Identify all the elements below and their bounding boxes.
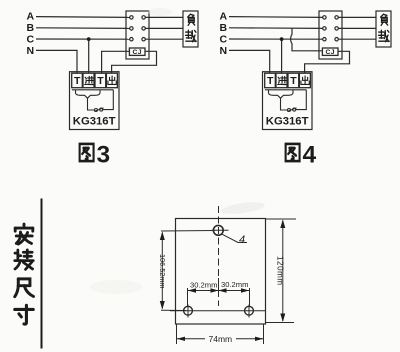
svg-text:C: C (220, 34, 228, 46)
svg-text:B: B (27, 22, 35, 34)
svg-text:T: T (74, 75, 81, 87)
svg-text:KG316T: KG316T (266, 115, 309, 127)
svg-text:T: T (267, 75, 274, 87)
svg-text:KG316T: KG316T (73, 115, 116, 127)
svg-text:A: A (220, 11, 228, 23)
svg-text:N: N (220, 45, 228, 57)
svg-text:4: 4 (239, 234, 245, 246)
svg-text:120mm: 120mm (276, 256, 285, 286)
svg-text:C: C (27, 34, 35, 46)
svg-text:30.2mm: 30.2mm (190, 281, 217, 290)
svg-text:CJ: CJ (133, 49, 142, 56)
svg-text:B: B (220, 22, 228, 34)
svg-text:4: 4 (303, 142, 317, 169)
svg-text:A: A (27, 11, 35, 23)
svg-text:74mm: 74mm (209, 334, 233, 344)
svg-text:30.2mm: 30.2mm (221, 280, 248, 289)
svg-text:N: N (27, 45, 35, 57)
svg-text:T: T (290, 75, 297, 87)
svg-text:T: T (97, 75, 104, 87)
svg-text:3: 3 (97, 142, 111, 169)
svg-text:CJ: CJ (326, 49, 335, 56)
svg-text:106.52mm: 106.52mm (158, 254, 167, 288)
